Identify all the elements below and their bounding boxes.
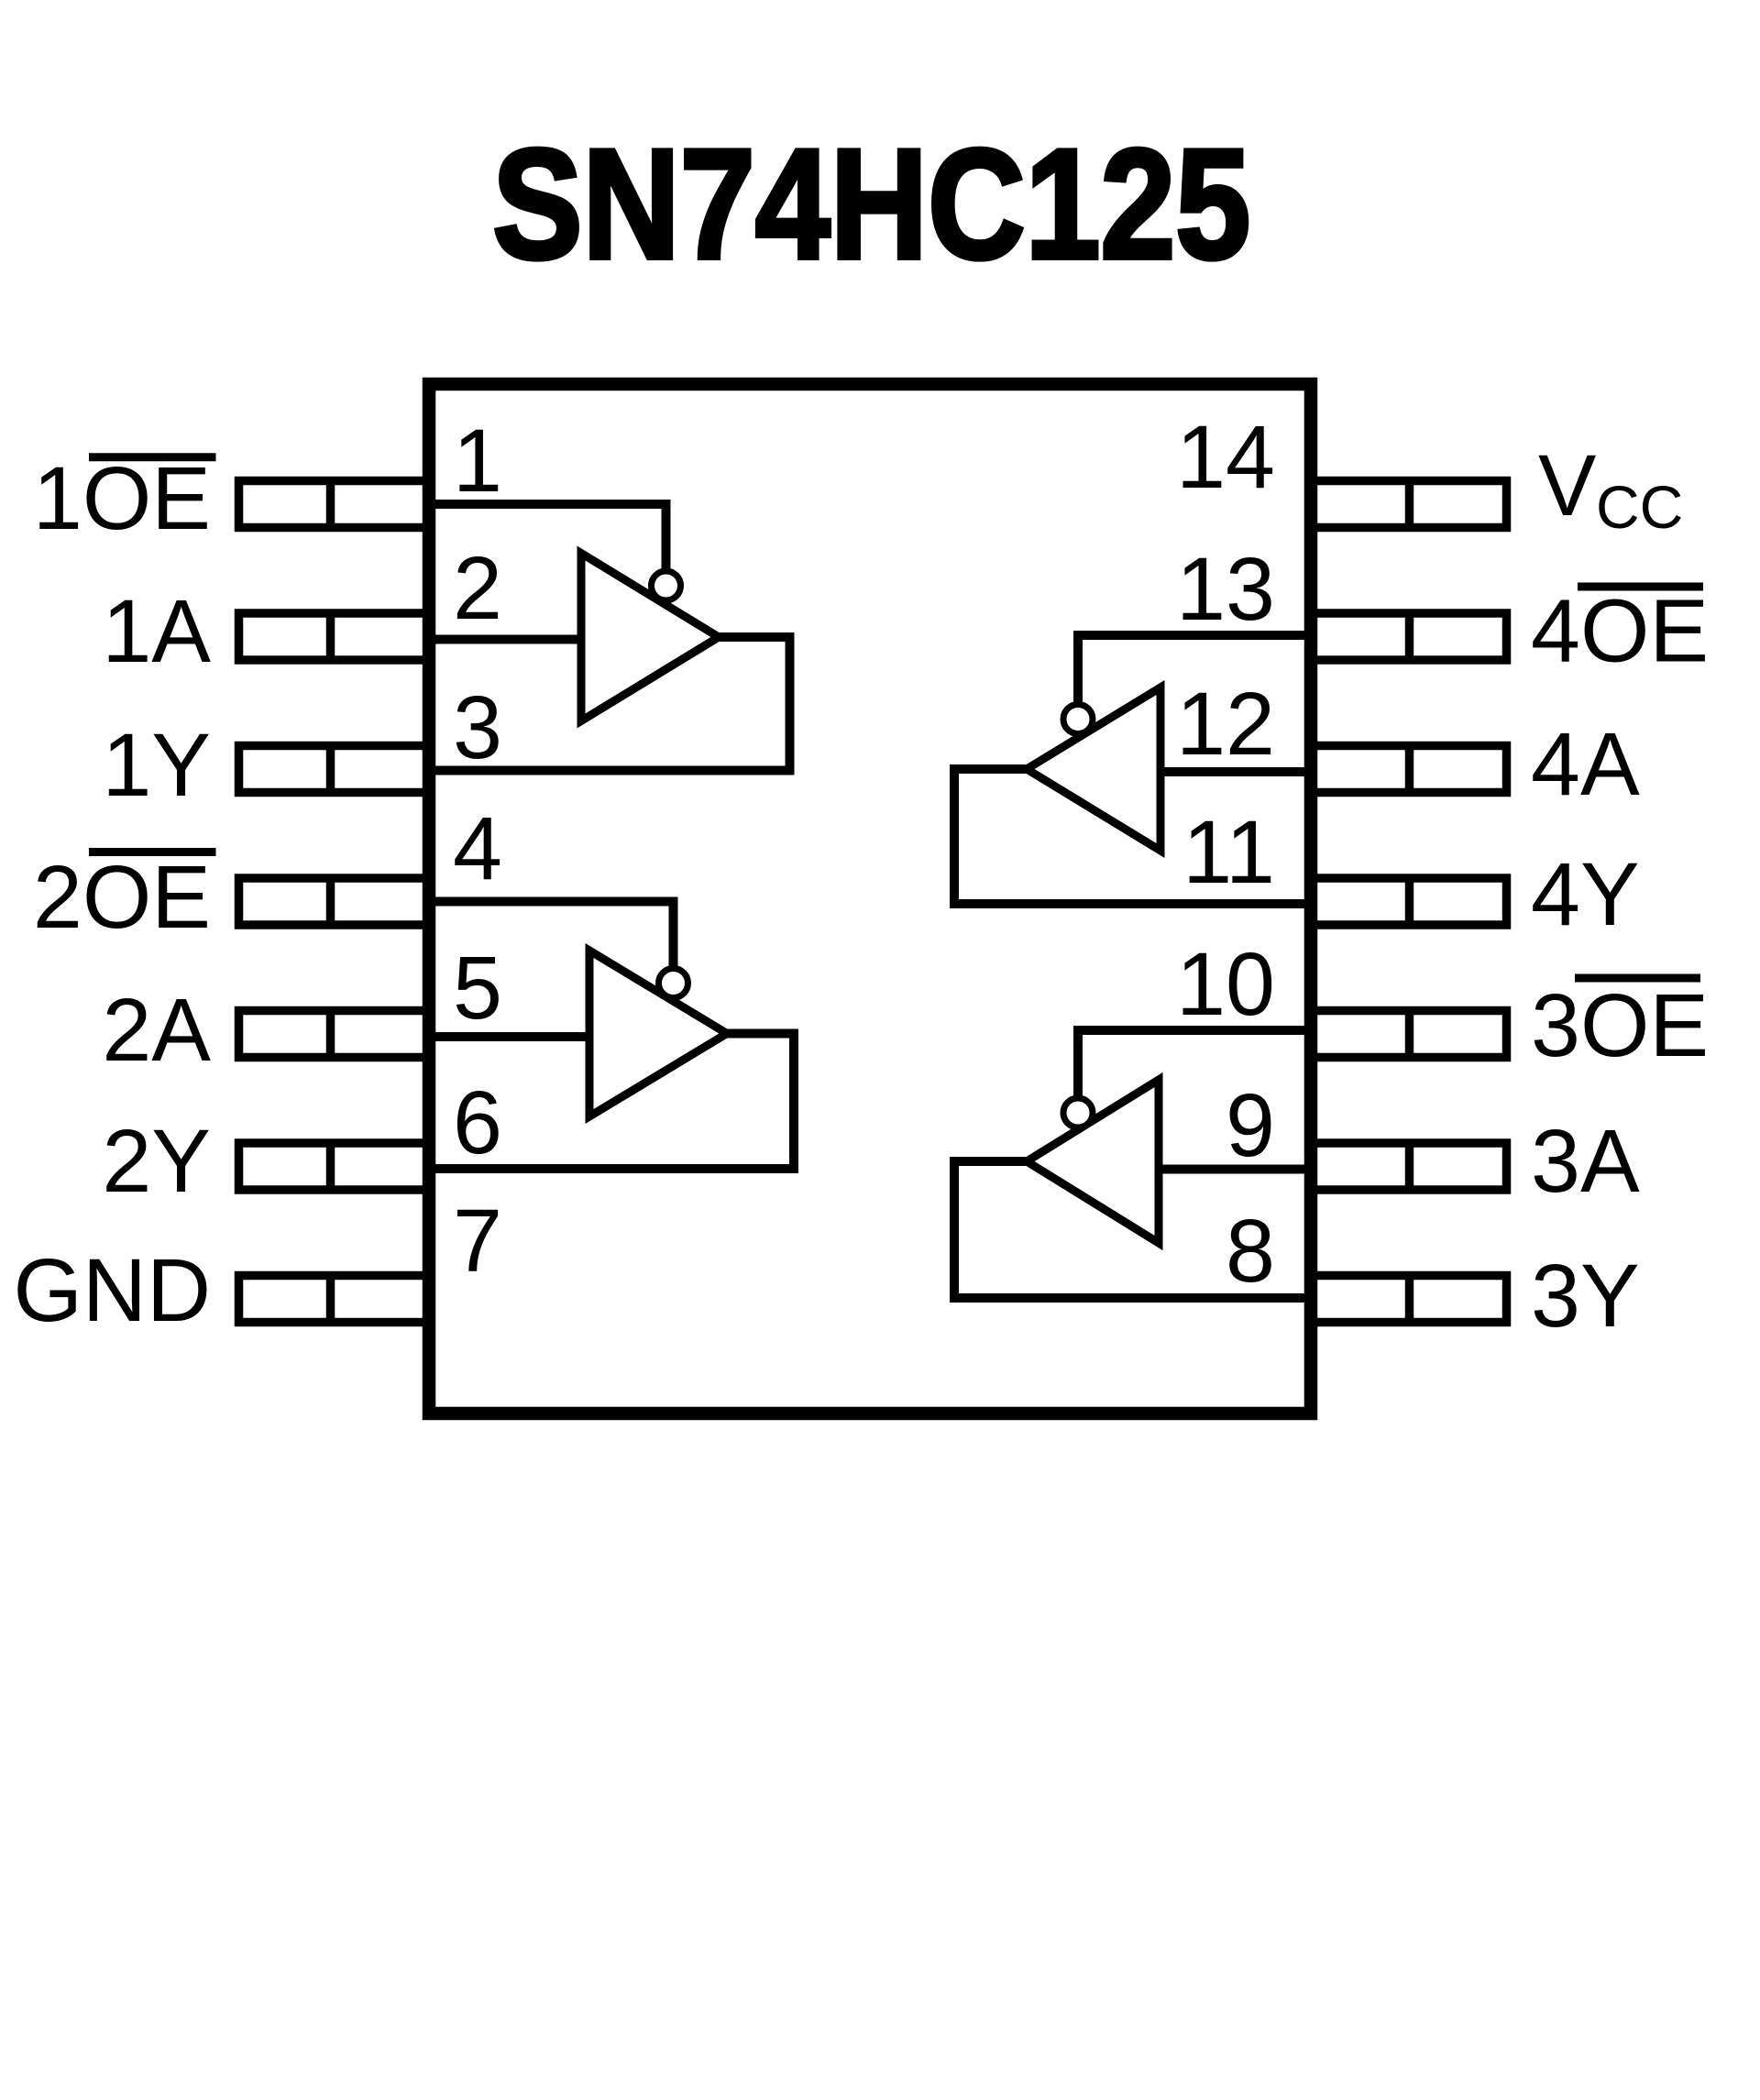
svg-text:3Y: 3Y xyxy=(1531,1246,1640,1346)
svg-text:GND: GND xyxy=(13,1240,211,1340)
label 4OE xyxy=(1531,581,1709,681)
buffer U1B output wire to pin 6 xyxy=(423,1034,794,1170)
buffer U1C input wire from pin 9 xyxy=(1159,1165,1317,1174)
svg-text:3A: 3A xyxy=(1531,1111,1640,1211)
buffer U1B input wire from pin 5 xyxy=(423,1032,589,1041)
pin 1 box xyxy=(239,481,428,528)
svg-text:3: 3 xyxy=(453,677,502,777)
svg-text:V: V xyxy=(1538,437,1596,534)
buffer U1D output wire to pin 11 xyxy=(954,769,1317,904)
label VCC xyxy=(1538,437,1683,541)
pin 8 box xyxy=(1312,1276,1507,1323)
buffer U1C bubble xyxy=(1063,1098,1093,1127)
buffer U1D enable wire from pin 13 xyxy=(1078,635,1317,706)
pin 7 box xyxy=(239,1276,428,1323)
svg-text:4Y: 4Y xyxy=(1531,844,1640,944)
buffer U1C enable wire from pin 10 xyxy=(1078,1030,1317,1100)
svg-text:1Y: 1Y xyxy=(102,715,211,815)
pin 10 box xyxy=(1312,1011,1507,1058)
pin 6 box xyxy=(239,1143,428,1190)
svg-text:4: 4 xyxy=(453,798,502,898)
pin 11 box xyxy=(1312,878,1507,925)
pin 5 box xyxy=(239,1011,428,1058)
buffer U1D input wire from pin 12 xyxy=(1160,767,1317,776)
svg-text:1OE: 1OE xyxy=(33,448,211,548)
svg-text:2Y: 2Y xyxy=(102,1111,211,1211)
buffer U1A output wire to pin 3 xyxy=(423,637,790,771)
svg-text:1A: 1A xyxy=(102,581,211,681)
svg-text:14: 14 xyxy=(1176,407,1275,507)
pin 12 box xyxy=(1312,746,1507,793)
buffer U1A bubble xyxy=(652,571,681,600)
svg-text:4A: 4A xyxy=(1531,714,1640,814)
svg-text:5: 5 xyxy=(453,938,502,1038)
buffer U1B bubble xyxy=(659,969,688,998)
pin 2 box xyxy=(239,613,428,660)
svg-text:8: 8 xyxy=(1226,1201,1275,1301)
buffer U1D bubble xyxy=(1063,705,1093,734)
svg-text:2A: 2A xyxy=(102,980,211,1080)
buffer U1A enable wire from pin 1 xyxy=(423,504,666,573)
pin 9 box xyxy=(1312,1143,1507,1190)
buffer U1A input wire from pin 2 xyxy=(423,635,581,644)
svg-text:3OE: 3OE xyxy=(1531,975,1709,1075)
pin 4 box xyxy=(239,878,428,925)
buffer U1C triangle xyxy=(1027,1080,1159,1243)
svg-text:2: 2 xyxy=(453,538,502,638)
buffer U1A triangle xyxy=(581,554,719,721)
pin 3 box xyxy=(239,746,428,793)
svg-text:9: 9 xyxy=(1226,1075,1275,1175)
buffer U1B triangle xyxy=(589,951,727,1116)
buffer U1B enable wire from pin 4 xyxy=(423,902,674,971)
svg-text:2OE: 2OE xyxy=(33,847,211,947)
svg-text:CC: CC xyxy=(1596,473,1683,541)
svg-text:12: 12 xyxy=(1176,674,1275,774)
svg-text:13: 13 xyxy=(1176,539,1275,639)
IC body U1 xyxy=(429,384,1311,1413)
svg-text:11: 11 xyxy=(1182,802,1275,902)
pin 14 box xyxy=(1312,481,1507,528)
svg-text:7: 7 xyxy=(453,1191,502,1291)
svg-text:6: 6 xyxy=(453,1072,502,1172)
label 2OE xyxy=(33,847,216,947)
svg-text:SN74HC125: SN74HC125 xyxy=(492,117,1250,292)
buffer U1D triangle xyxy=(1027,687,1160,851)
pin 13 box xyxy=(1312,613,1507,660)
buffer U1C output wire to pin 8 xyxy=(954,1161,1317,1298)
label 3OE xyxy=(1531,975,1709,1075)
svg-text:10: 10 xyxy=(1176,934,1275,1034)
svg-text:1: 1 xyxy=(453,411,502,511)
svg-text:4OE: 4OE xyxy=(1531,581,1709,681)
label 1OE xyxy=(33,448,216,548)
